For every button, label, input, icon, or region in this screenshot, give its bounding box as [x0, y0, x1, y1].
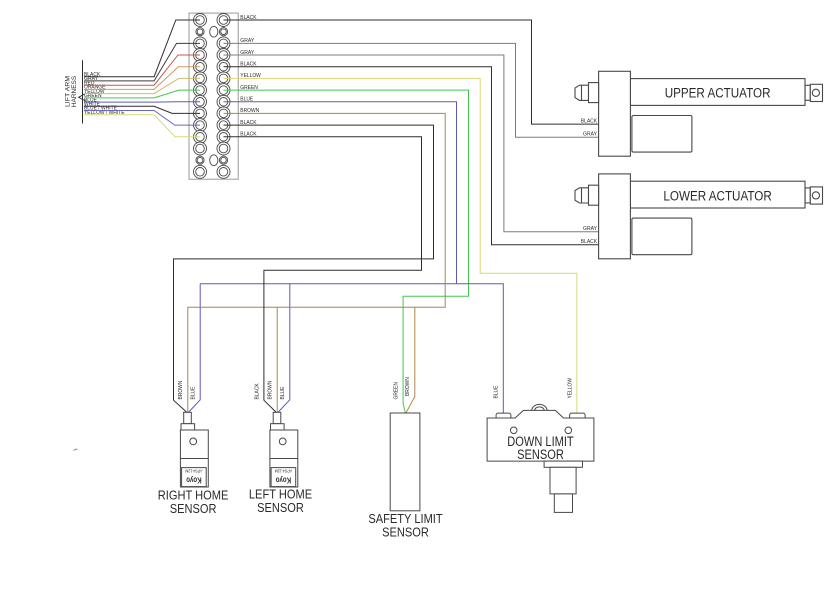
svg-text:GREEN: GREEN: [394, 382, 400, 400]
svg-text:BLACK: BLACK: [581, 239, 597, 245]
svg-text:SENSOR: SENSOR: [170, 501, 217, 516]
svg-text:BLUE: BLUE: [280, 386, 286, 399]
svg-text:BLUE: BLUE: [240, 97, 253, 103]
svg-text:APS4-12M: APS4-12M: [274, 469, 292, 474]
svg-text:GRAY: GRAY: [583, 132, 597, 138]
svg-text:YELLOW: YELLOW: [567, 378, 573, 399]
svg-text:Koyo: Koyo: [276, 476, 292, 485]
svg-text:BLUE: BLUE: [191, 386, 197, 399]
svg-text:BLUE: BLUE: [493, 385, 499, 398]
svg-text:APS4-12M: APS4-12M: [185, 469, 203, 474]
svg-text:HARNESS: HARNESS: [71, 75, 78, 107]
svg-text:Koyo: Koyo: [186, 476, 202, 485]
svg-text:BROWN: BROWN: [178, 381, 184, 400]
svg-text:GREEN: GREEN: [240, 85, 257, 91]
svg-text:BLACK: BLACK: [240, 62, 256, 68]
svg-text:SENSOR: SENSOR: [517, 447, 564, 462]
svg-text:GRAY: GRAY: [583, 226, 597, 232]
svg-text:BROWN: BROWN: [268, 381, 274, 400]
svg-text:UPPER ACTUATOR: UPPER ACTUATOR: [665, 86, 771, 101]
svg-text:GRAY: GRAY: [240, 50, 254, 56]
svg-text:SENSOR: SENSOR: [382, 525, 429, 540]
svg-text:BLACK: BLACK: [240, 15, 256, 21]
svg-text:BLACK: BLACK: [240, 120, 256, 126]
svg-text:LOWER ACTUATOR: LOWER ACTUATOR: [663, 188, 772, 203]
svg-text:GRAY: GRAY: [240, 38, 254, 44]
svg-text:BROWN: BROWN: [405, 377, 411, 396]
svg-text:BLACK: BLACK: [254, 383, 260, 399]
svg-text:BROWN: BROWN: [240, 108, 259, 114]
svg-text:YELLOW: YELLOW: [240, 73, 261, 79]
svg-text:BLACK: BLACK: [581, 119, 597, 125]
svg-text:BLACK: BLACK: [240, 132, 256, 138]
svg-text:SENSOR: SENSOR: [257, 500, 304, 515]
